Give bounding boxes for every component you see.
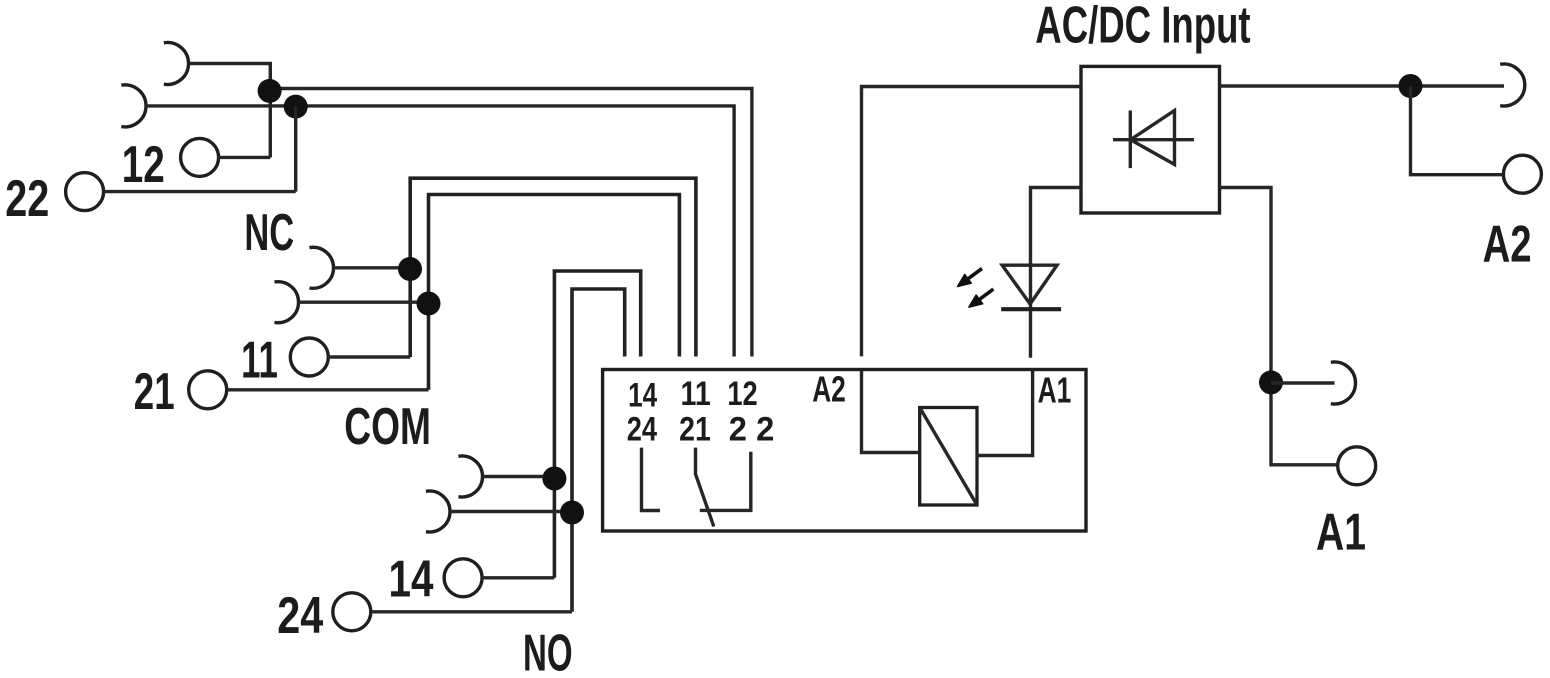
wire terminal 21 to riser [227, 388, 429, 391]
node J7 [1399, 74, 1423, 98]
svg-text:2 2: 2 2 [729, 411, 775, 449]
wire terminal 24 to riser [371, 610, 572, 613]
svg-text:A2: A2 [1483, 216, 1532, 274]
plug contact arc P7 (A2) [1500, 64, 1525, 106]
rectifier box U2 [1081, 66, 1220, 213]
wire COM outer loop (11 to relay) [410, 178, 696, 357]
LED D2 triangle [1002, 265, 1057, 304]
diode D1 line [1113, 138, 1194, 141]
wire riser J2 to terminal 22 [294, 107, 297, 192]
terminal circle A2 [1503, 155, 1541, 193]
LED arrow 1 [958, 269, 983, 287]
node J5 [542, 467, 566, 491]
terminal circle 24 [333, 593, 371, 631]
terminal circle 22 [66, 173, 104, 211]
contact NO fixed (14/24) [642, 448, 661, 511]
diode D1 triangle [1131, 111, 1175, 165]
svg-text:AC/DC Input: AC/DC Input [1035, 0, 1250, 54]
node J4 [417, 292, 441, 316]
coil diagonal [920, 408, 977, 506]
svg-text:14: 14 [628, 376, 657, 414]
terminal circle 14 [444, 559, 482, 597]
wire terminal 14 to riser [482, 576, 554, 579]
wire P6 to riser [450, 510, 572, 513]
terminal circle 12 [181, 138, 219, 176]
svg-text:24: 24 [627, 411, 657, 449]
svg-text:12: 12 [122, 136, 165, 194]
wire terminal 12 to riser [219, 156, 271, 159]
LED arrow 2 [969, 289, 994, 307]
node J1 [258, 79, 282, 103]
terminal circle 11 [290, 338, 328, 376]
relay coil K1 [920, 408, 977, 506]
node J8 [1259, 370, 1283, 394]
wire P5 to riser [483, 475, 555, 478]
plug contact arc P1 (NC group top) [164, 43, 189, 85]
wire J8 to arc A1 [1271, 381, 1335, 384]
terminal circle 21 [189, 371, 227, 409]
svg-text:21: 21 [679, 411, 711, 449]
plug contact arc P3 (COM group) [309, 247, 333, 288]
svg-text:22: 22 [5, 170, 49, 228]
plug contact arc P8 (A1) [1331, 362, 1356, 404]
wire terminal 11 to riser [328, 355, 410, 358]
svg-text:A1: A1 [1038, 369, 1072, 410]
svg-text:COM: COM [344, 398, 431, 456]
contact common blade (11/21) [696, 448, 714, 527]
wire box bottom-left to LED [1031, 188, 1082, 358]
plug contact arc P4 [274, 282, 298, 323]
wire NO inner loop (24 to relay) [572, 289, 625, 612]
wire box bottom-right to A1 terminals [1220, 188, 1338, 465]
plug contact arc P2 (NC group second) [121, 85, 146, 127]
svg-text:11: 11 [681, 375, 711, 413]
wire J7 down to terminal A2 [1411, 86, 1504, 175]
wire long NC run 2 to relay pin 12 (left line) [146, 106, 734, 357]
wire from P1 to vertical riser x271 [189, 64, 271, 158]
wire COM inner loop (21 to relay) [429, 195, 680, 390]
plug contact arc P6 [426, 491, 450, 532]
plug contact arc P5 (NO group) [458, 456, 482, 497]
wire long NC run to relay pin 12 (right line) [270, 89, 752, 357]
wire P3 to riser [333, 266, 410, 269]
node J6 [560, 501, 584, 525]
wire A2 pin into relay [862, 371, 920, 453]
wire NO outer loop (14 to relay) [554, 271, 640, 578]
wire A2 feed (box to left, down to relay) [862, 87, 1082, 357]
node J3 [398, 257, 422, 281]
relay outline box U1 [603, 370, 1086, 532]
wire box to A2 terminals [1220, 84, 1505, 87]
svg-text:NO: NO [523, 625, 573, 678]
svg-text:21: 21 [134, 363, 175, 421]
terminal circle A1 [1338, 447, 1376, 485]
svg-text:12: 12 [727, 375, 757, 413]
wire terminal 22 to riser [104, 190, 296, 193]
svg-text:A2: A2 [812, 369, 846, 410]
wire P4 to riser [298, 301, 428, 304]
svg-text:NC: NC [244, 204, 294, 262]
LED D2 cathode bar [1001, 307, 1061, 311]
contact NC fixed (12/22) [700, 452, 751, 511]
svg-text:11: 11 [241, 332, 278, 390]
svg-text:14: 14 [389, 551, 434, 609]
diode D1 cathode bar [1129, 111, 1132, 169]
svg-text:24: 24 [277, 587, 323, 645]
wire coil to A1 pin [977, 370, 1033, 456]
node J2 [284, 95, 308, 119]
svg-text:A1: A1 [1316, 503, 1366, 561]
